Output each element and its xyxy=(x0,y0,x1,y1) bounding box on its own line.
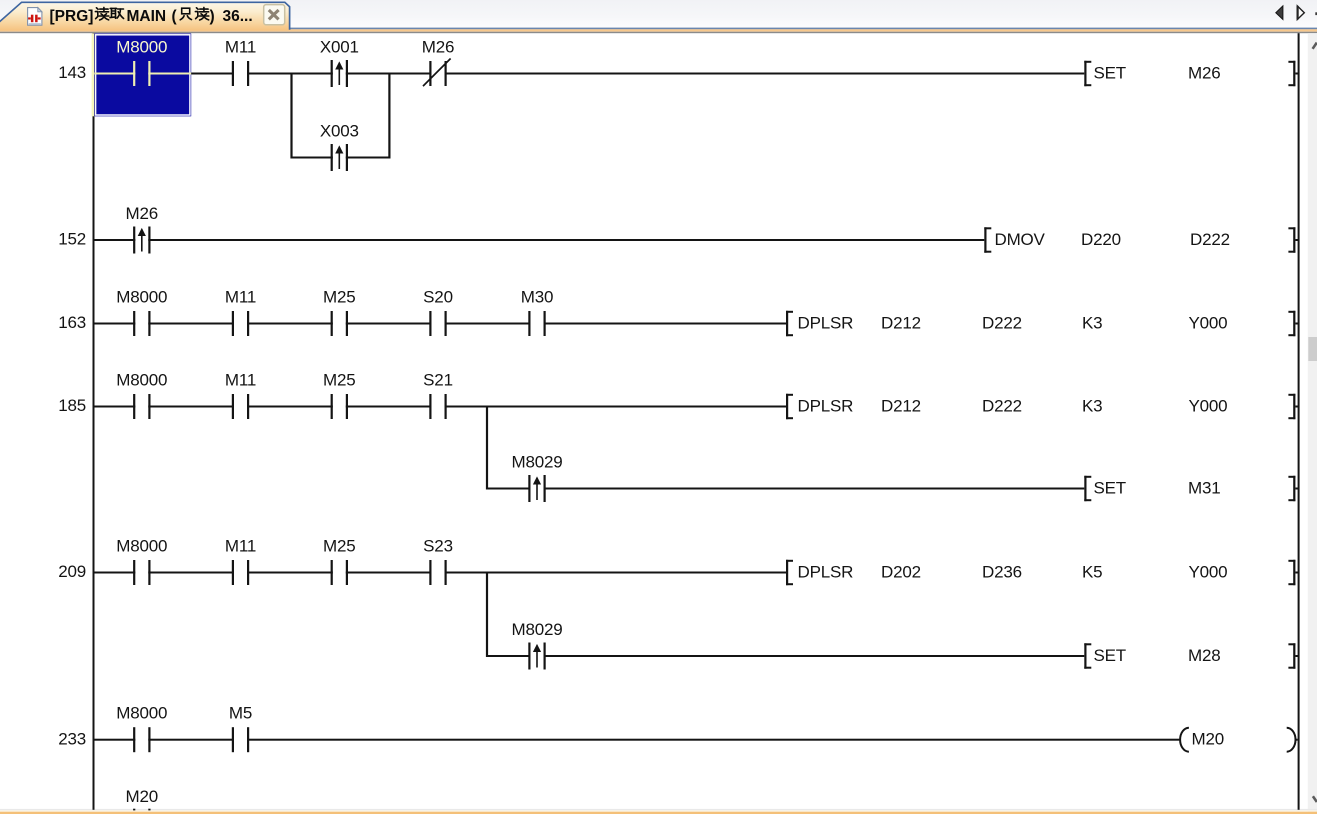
svg-text:D212: D212 xyxy=(881,397,921,416)
svg-text:S21: S21 xyxy=(423,371,453,390)
svg-text:(: ( xyxy=(172,8,178,25)
svg-text:209: 209 xyxy=(58,562,86,581)
svg-text:M8000: M8000 xyxy=(116,371,167,390)
svg-text:M8029: M8029 xyxy=(512,453,563,472)
svg-text:M25: M25 xyxy=(323,288,355,307)
svg-text:D212: D212 xyxy=(881,314,921,333)
svg-text:SET: SET xyxy=(1094,646,1126,665)
svg-text:X003: X003 xyxy=(320,122,359,141)
svg-text:M8000: M8000 xyxy=(116,537,167,556)
svg-text:M8000: M8000 xyxy=(116,704,167,723)
svg-text:D236: D236 xyxy=(982,563,1022,582)
svg-text:M11: M11 xyxy=(225,371,256,390)
svg-text:S20: S20 xyxy=(423,288,453,307)
svg-text:): ) xyxy=(210,8,215,25)
svg-text:[PRG]: [PRG] xyxy=(50,8,94,25)
svg-text:M20: M20 xyxy=(1192,730,1224,749)
svg-text:M25: M25 xyxy=(323,371,355,390)
svg-text:M20: M20 xyxy=(126,787,158,806)
svg-text:X001: X001 xyxy=(320,38,359,57)
svg-text:SET: SET xyxy=(1094,479,1126,498)
svg-text:M8029: M8029 xyxy=(512,620,563,639)
svg-text:M11: M11 xyxy=(225,288,256,307)
svg-text:233: 233 xyxy=(58,729,86,748)
svg-text:K3: K3 xyxy=(1082,314,1102,333)
svg-text:36...: 36... xyxy=(223,8,253,25)
svg-text:M28: M28 xyxy=(1188,646,1220,665)
svg-text:Y000: Y000 xyxy=(1189,397,1228,416)
svg-text:M11: M11 xyxy=(225,537,256,556)
svg-text:185: 185 xyxy=(58,396,86,415)
svg-text:M25: M25 xyxy=(323,537,355,556)
svg-text:K5: K5 xyxy=(1082,563,1102,582)
svg-text:DPLSR: DPLSR xyxy=(798,314,854,333)
svg-text:DPLSR: DPLSR xyxy=(798,563,854,582)
svg-text:M8000: M8000 xyxy=(116,288,167,307)
svg-text:S23: S23 xyxy=(423,537,453,556)
svg-text:D220: D220 xyxy=(1081,230,1121,249)
svg-text:Y000: Y000 xyxy=(1189,314,1228,333)
svg-text:M26: M26 xyxy=(126,204,158,223)
svg-text:M30: M30 xyxy=(521,288,553,307)
svg-text:D222: D222 xyxy=(982,314,1022,333)
svg-text:M31: M31 xyxy=(1188,479,1220,498)
svg-text:163: 163 xyxy=(58,313,86,332)
svg-text:SET: SET xyxy=(1094,64,1126,83)
svg-text:M8000: M8000 xyxy=(116,38,167,57)
svg-text:152: 152 xyxy=(58,230,86,249)
svg-text:M5: M5 xyxy=(229,704,252,723)
svg-text:D222: D222 xyxy=(1190,230,1230,249)
svg-text:Y000: Y000 xyxy=(1189,563,1228,582)
svg-text:M26: M26 xyxy=(422,38,454,57)
svg-text:DPLSR: DPLSR xyxy=(798,397,854,416)
svg-text:143: 143 xyxy=(58,63,86,82)
svg-text:MAIN: MAIN xyxy=(127,8,167,25)
svg-text:M26: M26 xyxy=(1188,64,1220,83)
svg-text:D222: D222 xyxy=(982,397,1022,416)
svg-text:DMOV: DMOV xyxy=(995,230,1046,249)
svg-text:K3: K3 xyxy=(1082,397,1102,416)
svg-text:D202: D202 xyxy=(881,563,921,582)
svg-text:M11: M11 xyxy=(225,38,256,57)
